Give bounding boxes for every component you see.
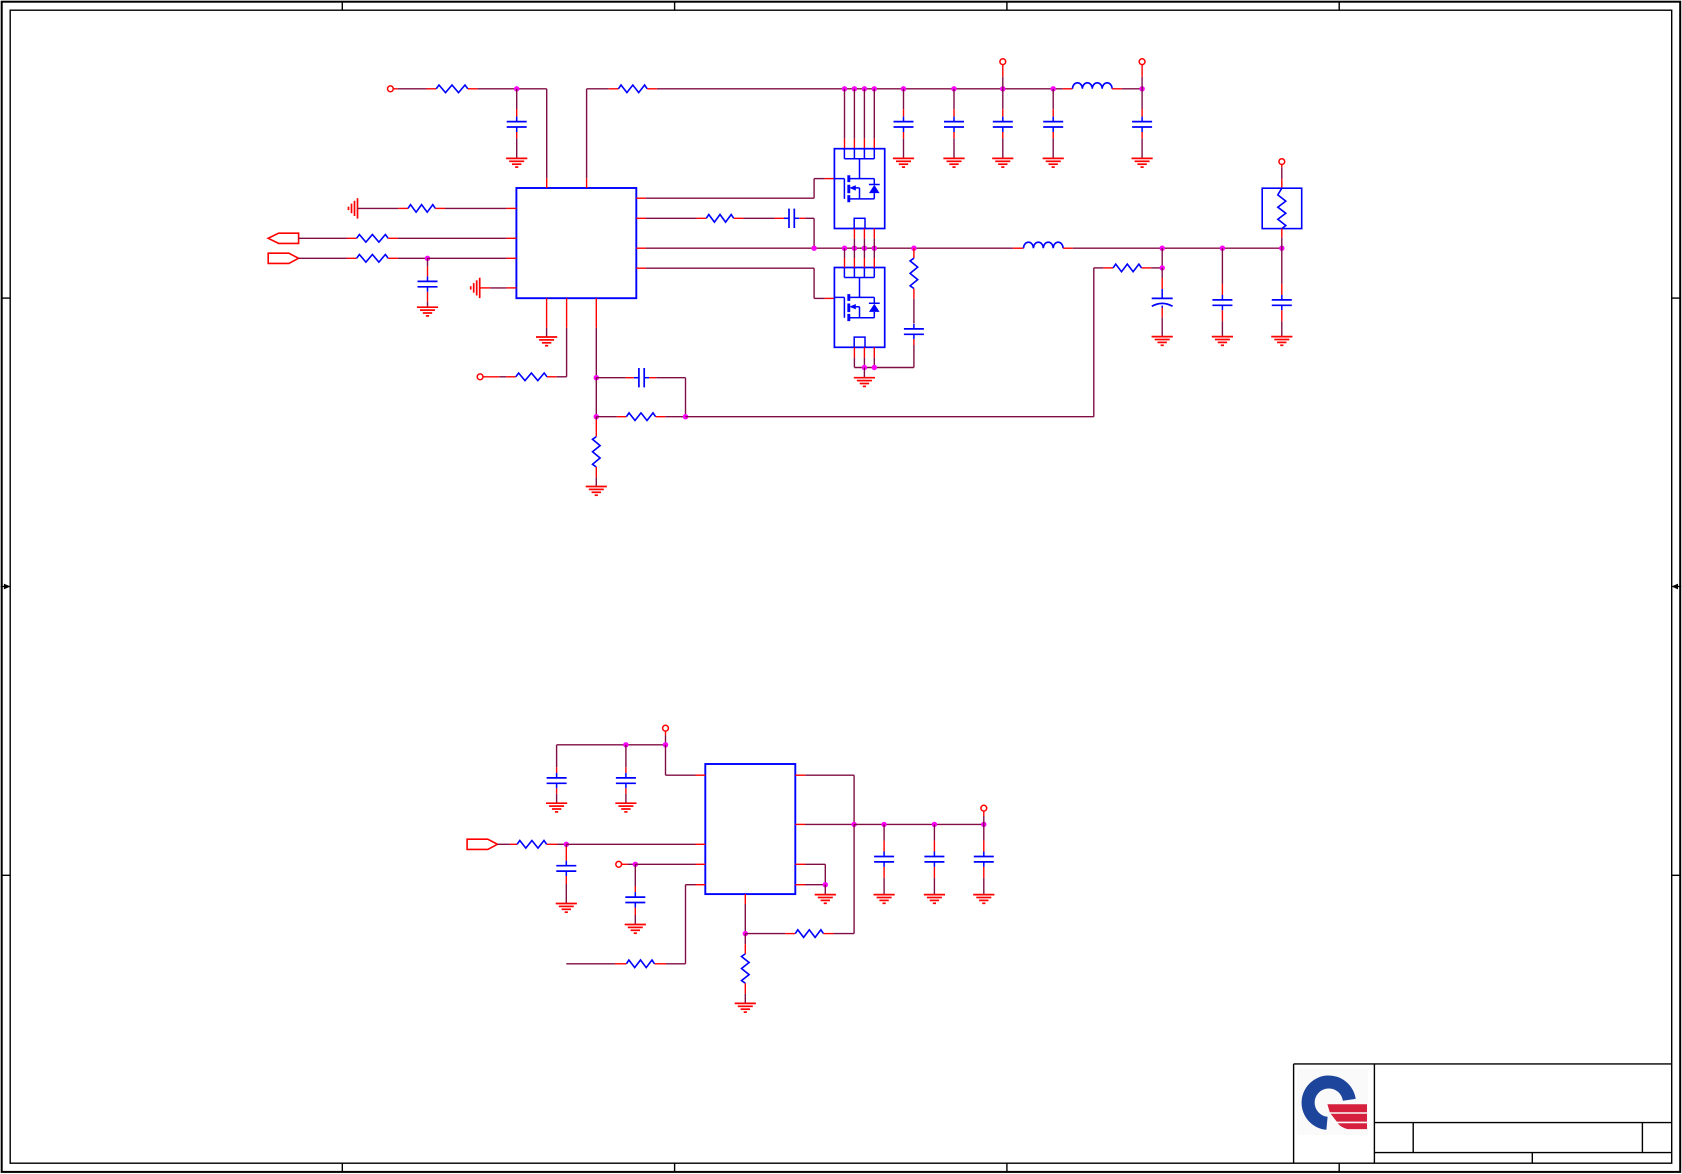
wire rail4 to C18: [883, 824, 885, 851]
ground GND3: [943, 158, 964, 167]
junction J29: [564, 842, 569, 847]
wire R6 to J26: [1281, 229, 1283, 249]
junction J25: [1220, 246, 1225, 251]
wire Q2 source pin 3: [873, 347, 875, 367]
ground GND15: [615, 803, 636, 812]
wire R11 to U1: [388, 237, 516, 239]
junction J7: [951, 86, 956, 91]
company logo: [1297, 1069, 1368, 1135]
capacitor C3: [944, 117, 964, 132]
wire C18 to ground: [883, 867, 885, 895]
junction J33: [932, 822, 937, 827]
wire R5 to J24: [1142, 267, 1163, 269]
junction J1: [514, 86, 519, 91]
junction J2: [842, 86, 847, 91]
wire L1 to J10: [1112, 88, 1142, 90]
capacitor C12: [634, 368, 649, 387]
sheet center arrow right: [1672, 584, 1682, 590]
wire C19 to ground: [933, 867, 935, 895]
resistor R1: [436, 85, 468, 93]
transistor Q1 (power MOSFET package): [834, 149, 884, 229]
wire R8 to J14: [656, 416, 686, 418]
wire rail4 to C20: [983, 824, 985, 851]
wire J26 to C11: [1281, 248, 1283, 295]
capacitor C1: [507, 117, 527, 132]
junction J12: [594, 375, 599, 380]
junction J20: [911, 246, 916, 251]
capacitor C10: [1212, 295, 1232, 310]
junction J28: [663, 742, 668, 747]
wire U2 bottom pin: [744, 894, 746, 934]
wire C16 to ground: [565, 876, 567, 903]
port P6: [663, 725, 669, 731]
capacitor C19: [924, 852, 944, 867]
wire P1 to R1: [393, 88, 436, 90]
resistor R2: [618, 85, 647, 93]
resistor R11: [357, 235, 389, 243]
capacitor C20: [974, 852, 994, 867]
wire SW to Q2 drain pin 4: [873, 248, 875, 267]
capacitor C17: [625, 892, 645, 907]
wire P6 stub: [665, 731, 667, 745]
port P3: [1139, 59, 1145, 65]
wire J29 to C16: [565, 844, 567, 860]
wire J1 to C1: [516, 89, 518, 117]
port connector CN1: [268, 233, 298, 243]
ground GND9: [586, 487, 607, 496]
wire J20 to R4: [913, 248, 915, 258]
wire feedback down: [853, 824, 855, 933]
wire J29 to U2 pin: [566, 843, 705, 845]
wire feedback corner to R5: [1094, 267, 1113, 269]
wire C20 to ground: [983, 867, 985, 895]
wire J11 to U1: [428, 257, 517, 259]
junction J22: [872, 365, 877, 370]
wire J30 to C17: [634, 864, 636, 892]
junction J5: [872, 86, 877, 91]
wire U1 pin to J12: [595, 298, 597, 378]
junction J35: [823, 882, 828, 887]
wire Q1 source pin 1 to SW: [853, 229, 855, 249]
wire J21 to ground: [863, 368, 865, 378]
wire rail2 to Q1 drain pin 2: [853, 89, 855, 149]
junction J24: [1160, 265, 1165, 270]
junction J21: [862, 365, 867, 370]
wire U2 to rail4: [795, 823, 854, 825]
wire CN1 to R11: [299, 237, 357, 239]
wire R15 to feedback: [823, 933, 854, 935]
wire J12 to C12: [596, 377, 634, 379]
wire C10 to ground: [1221, 310, 1223, 336]
wire J10 to C6: [1141, 89, 1143, 117]
resistor R12: [357, 255, 389, 263]
ground GND21: [815, 895, 836, 904]
ground GND16: [556, 904, 577, 913]
wire rail4 to C19: [933, 824, 935, 851]
wire R10 to U1: [435, 207, 516, 209]
resistor R8: [626, 413, 655, 421]
ground GND5: [1043, 158, 1064, 167]
wire rail2 to C4: [1002, 89, 1004, 117]
resistor R3: [706, 215, 733, 223]
wire J23 to J24: [1161, 248, 1163, 268]
junction J14: [683, 414, 688, 419]
resistor R13: [517, 841, 547, 849]
wire rail2 to Q1 drain pin 1: [844, 89, 846, 149]
junction J13: [594, 414, 599, 419]
wire AGND1 to R10: [358, 207, 409, 209]
port P4: [477, 374, 483, 380]
wire J11 to C13: [427, 258, 429, 276]
wire J13 to R7: [595, 417, 597, 437]
wire P3 stub: [1141, 65, 1143, 89]
resistor R5: [1113, 264, 1141, 272]
capacitor C14: [547, 773, 567, 788]
wire J30 to U2 pin: [635, 863, 705, 865]
resistor R15: [795, 930, 823, 938]
ground GND13: [1271, 337, 1292, 346]
wire J35 to ground: [824, 885, 826, 895]
junction J16: [842, 246, 847, 251]
capacitor C4: [993, 117, 1013, 132]
junction J30: [633, 862, 638, 867]
junction J26: [1279, 246, 1284, 251]
junction J32: [881, 822, 886, 827]
port P8: [981, 805, 987, 811]
wire R12 to J11: [388, 257, 427, 259]
wire CN2 to R12: [299, 257, 357, 259]
junction J27: [623, 742, 628, 747]
wire L2 to VOUT rail: [1063, 247, 1282, 249]
wire CN3 to R13: [497, 843, 517, 845]
junction J34: [981, 822, 986, 827]
wire P4 to R9: [483, 376, 516, 378]
wire J27 to C15: [625, 745, 627, 773]
title block: [1294, 1064, 1672, 1163]
ground GND14: [546, 803, 567, 812]
wire C14 to ground: [556, 788, 558, 803]
wire C12 to corner: [649, 378, 685, 417]
junction J10: [1139, 86, 1144, 91]
wire J12 to J13: [595, 378, 597, 417]
junction J8: [1000, 86, 1005, 91]
wire R2 to rail2: [647, 88, 1063, 90]
port connector CN3: [467, 839, 497, 849]
ground GND12: [1212, 337, 1233, 346]
capacitor C5: [1043, 117, 1063, 132]
wire C5 to ground: [1052, 132, 1054, 158]
capacitor C11: [1272, 295, 1292, 310]
inductor L1: [1073, 83, 1113, 89]
wire C8 to Q2 source rail: [854, 339, 914, 367]
wire J28 to U2 pin: [666, 745, 706, 775]
junction J23: [1160, 246, 1165, 251]
wire SW to Q2 drain pin 3: [863, 248, 865, 267]
ground GND2: [893, 158, 914, 167]
resistor R6 (boxed): [1262, 188, 1302, 228]
capacitor C7: [784, 209, 799, 228]
junction J4: [862, 86, 867, 91]
junction J11: [425, 256, 430, 261]
wire rail2 to Q1 drain pin 4: [873, 89, 875, 149]
port P7: [616, 861, 622, 867]
wire R13 to J29: [547, 843, 567, 845]
ground GND17: [625, 925, 646, 934]
wire R4 to C8: [913, 289, 915, 324]
ground GND6: [1132, 158, 1153, 167]
wire P5 to R6: [1281, 165, 1283, 189]
wire R14 open end: [566, 963, 626, 965]
wire rail2 to Q1 drain pin 3: [863, 89, 865, 149]
IC U2: [705, 764, 795, 894]
wire SW to Q2 drain pin 1: [844, 248, 846, 267]
capacitor C6: [1132, 117, 1152, 132]
ground GND7: [417, 307, 438, 316]
resistor R16: [742, 954, 750, 983]
junction J18: [862, 246, 867, 251]
junction J3: [852, 86, 857, 91]
wire J36 to R16: [744, 934, 746, 954]
wire C9 to ground: [1161, 308, 1163, 337]
IC U1: [516, 188, 636, 298]
ground GND1: [506, 158, 527, 167]
wire R1 to U1 pin: [468, 89, 547, 188]
ground AGND2 (rotated): [471, 278, 480, 298]
wire U1 pin to GND8: [546, 298, 548, 337]
wire Q2 source pin 1: [853, 347, 855, 367]
ground GND10: [854, 378, 875, 387]
wire C3 to ground: [953, 132, 955, 158]
wire rail3 to C14: [556, 745, 558, 773]
wire U1 to Q1 gate: [636, 179, 834, 199]
wire U1 to SW rail: [636, 247, 1013, 249]
junction J31: [851, 822, 856, 827]
junction J15: [811, 246, 816, 251]
wire J36 to R15: [745, 933, 795, 935]
wire Q1 source pin 2 to SW: [863, 229, 865, 249]
wire R3 to C7: [734, 217, 787, 219]
junction J36: [743, 931, 748, 936]
port P5: [1279, 159, 1285, 165]
capacitor C16: [556, 861, 576, 876]
wire J24 to C9: [1161, 268, 1163, 289]
wire rail3: [557, 744, 666, 746]
port P2: [1000, 59, 1006, 65]
wire J25 to C10: [1221, 248, 1223, 295]
ground GND11: [1152, 337, 1173, 346]
wire rail2 to C5: [1052, 89, 1054, 117]
ground GND8: [536, 337, 557, 346]
wire P8 stub: [983, 811, 985, 824]
wire U2 pin to J35: [795, 864, 825, 884]
wire U2 pin via R14 stub: [655, 885, 706, 964]
wire rail2 to C3: [953, 89, 955, 117]
junction J6: [901, 86, 906, 91]
wire C4 to ground: [1002, 132, 1004, 158]
wire Q1 source pin 3 to SW: [873, 229, 875, 249]
junction J9: [1051, 86, 1056, 91]
wire C17 to ground: [634, 908, 636, 925]
ground GND20: [973, 895, 994, 904]
ground GND19: [924, 895, 945, 904]
wire C6 to ground: [1141, 132, 1143, 158]
ground AGND1 (rotated): [349, 198, 358, 218]
capacitor C8: [904, 324, 924, 339]
resistor R7: [593, 437, 601, 467]
wire U1 pin to R2: [587, 89, 619, 188]
inductor L2: [1024, 242, 1064, 248]
wire U1 to R3: [636, 217, 706, 219]
wire J13 to R8: [596, 416, 626, 418]
junction J19: [872, 246, 877, 251]
capacitor C15: [616, 773, 636, 788]
port P1: [388, 86, 394, 92]
resistor R14: [626, 960, 654, 968]
wire AGND2 to U1: [480, 287, 517, 289]
wire R7 to ground: [595, 467, 597, 487]
wire SW to Q2 drain pin 2: [853, 248, 855, 267]
wire C13 to ground: [427, 292, 429, 307]
ground GND22: [735, 1003, 756, 1012]
wire U1 to Q2 gate: [636, 268, 834, 298]
wire feedback long: [686, 268, 1094, 417]
wire rail2 to L1: [1063, 88, 1073, 90]
wire C2 to ground: [903, 132, 905, 158]
sheet center arrow left: [1, 584, 11, 590]
wire P7 to J30: [622, 863, 636, 865]
wire U2 to feedback top: [795, 775, 854, 824]
wire SW to L2: [1013, 247, 1023, 249]
wire P2 stub: [1002, 65, 1004, 89]
ground GND4: [992, 158, 1013, 167]
wire rail2 to C2: [903, 89, 905, 117]
junction J17: [852, 246, 857, 251]
ground GND18: [874, 895, 895, 904]
transistor Q2 (power MOSFET package): [834, 268, 884, 348]
resistor R9: [516, 373, 547, 381]
wire R16 to ground: [744, 983, 746, 1003]
wire C1 to ground: [516, 132, 518, 158]
wire U2 pin to J35b: [795, 884, 825, 886]
wire C11 to ground: [1281, 310, 1283, 336]
wire C15 to ground: [625, 788, 627, 803]
capacitor C9 (polarized): [1152, 289, 1173, 308]
capacitor C18: [874, 852, 894, 867]
wire R9 to U1 pin: [547, 298, 567, 377]
wire Q2 source pin 2: [863, 347, 865, 367]
capacitor C2: [894, 117, 914, 132]
capacitor C13: [418, 276, 438, 291]
resistor R4: [910, 258, 918, 288]
port connector CN2: [268, 253, 298, 263]
resistor R10: [408, 205, 435, 213]
wire C7 to SW rail: [800, 218, 815, 248]
wire rail4: [854, 823, 984, 825]
